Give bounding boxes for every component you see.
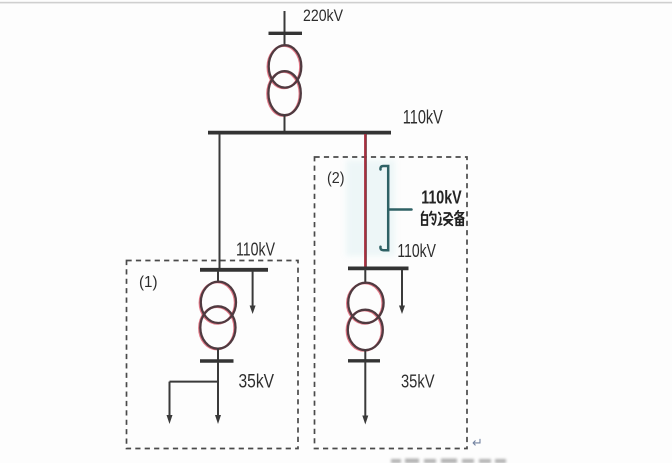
transformer T2 red fringe bbox=[199, 282, 235, 349]
wire: T3 to 35kV bar bbox=[364, 350, 366, 361]
wire: right 35kV feeder bbox=[364, 362, 366, 418]
wire: bus to left transformer bbox=[217, 271, 219, 283]
的 bbox=[422, 212, 428, 226]
left 110kV local busbar bbox=[200, 268, 268, 272]
wire: red feeder dark core bbox=[365, 134, 367, 268]
top border line bbox=[0, 2, 672, 4]
svg-text:110kV: 110kV bbox=[421, 188, 462, 208]
wire: bus to right transformer bbox=[364, 269, 366, 284]
transformer T3 (box 2) bbox=[348, 283, 384, 351]
disconnector bar at 220kV bbox=[269, 32, 303, 35]
wire: right aux feeder bbox=[401, 270, 403, 308]
wire: red 110kV feeder (highlighted equipment) bbox=[364, 134, 366, 268]
arrow: left aux feeder bbox=[250, 306, 256, 315]
wire: T2 to 35kV bar bbox=[217, 348, 219, 361]
svg-text:110kV: 110kV bbox=[403, 108, 443, 129]
dashed box (1) bbox=[127, 261, 299, 449]
arrow: left 35kV main feeder bbox=[215, 415, 221, 424]
svg-text:110kV: 110kV bbox=[397, 241, 436, 261]
transformer T1 red fringe bbox=[267, 46, 300, 116]
left 35kV busbar bbox=[200, 359, 234, 362]
svg-text:220kV: 220kV bbox=[303, 6, 344, 25]
wire: left 35kV branch horizontal bbox=[170, 381, 219, 383]
arrow: right aux feeder bbox=[399, 306, 405, 315]
right 35kV busbar bbox=[348, 359, 380, 362]
wire: T1 to 110kV bus bbox=[284, 115, 286, 132]
svg-text:(2): (2) bbox=[327, 170, 345, 187]
label 的设备 (equipment, drawn glyphs) bbox=[422, 211, 464, 226]
arrow: right 35kV feeder bbox=[362, 416, 368, 425]
wire: left feeder from main bus bbox=[219, 134, 221, 269]
wire: left aux feeder bbox=[252, 271, 254, 308]
110kV main busbar bbox=[208, 131, 391, 135]
svg-text:35kV: 35kV bbox=[401, 372, 435, 392]
brace for 110kV equipment bbox=[380, 166, 411, 250]
wire: left 35kV main feeder bbox=[217, 362, 219, 417]
cyan highlight behind brace bbox=[346, 160, 395, 256]
svg-text:110kV: 110kV bbox=[236, 239, 275, 260]
备 bbox=[455, 211, 464, 219]
transformer T1 (220/110kV) bbox=[268, 45, 301, 115]
transformer T3 red fringe bbox=[347, 283, 383, 351]
faint cropped text at bottom bbox=[391, 459, 506, 463]
设 bbox=[439, 213, 442, 225]
transformer T2 (box 1) bbox=[200, 282, 236, 349]
arrow: left 35kV branch bbox=[167, 415, 173, 424]
svg-text:↵: ↵ bbox=[472, 435, 483, 450]
wire: 220kV incoming line bbox=[284, 11, 286, 46]
dashed box (2) bbox=[315, 157, 468, 449]
svg-text:35kV: 35kV bbox=[239, 372, 275, 393]
svg-text:(1): (1) bbox=[139, 274, 158, 291]
right 110kV local busbar bbox=[348, 266, 409, 270]
wire: left 35kV branch vertical bbox=[169, 382, 171, 417]
